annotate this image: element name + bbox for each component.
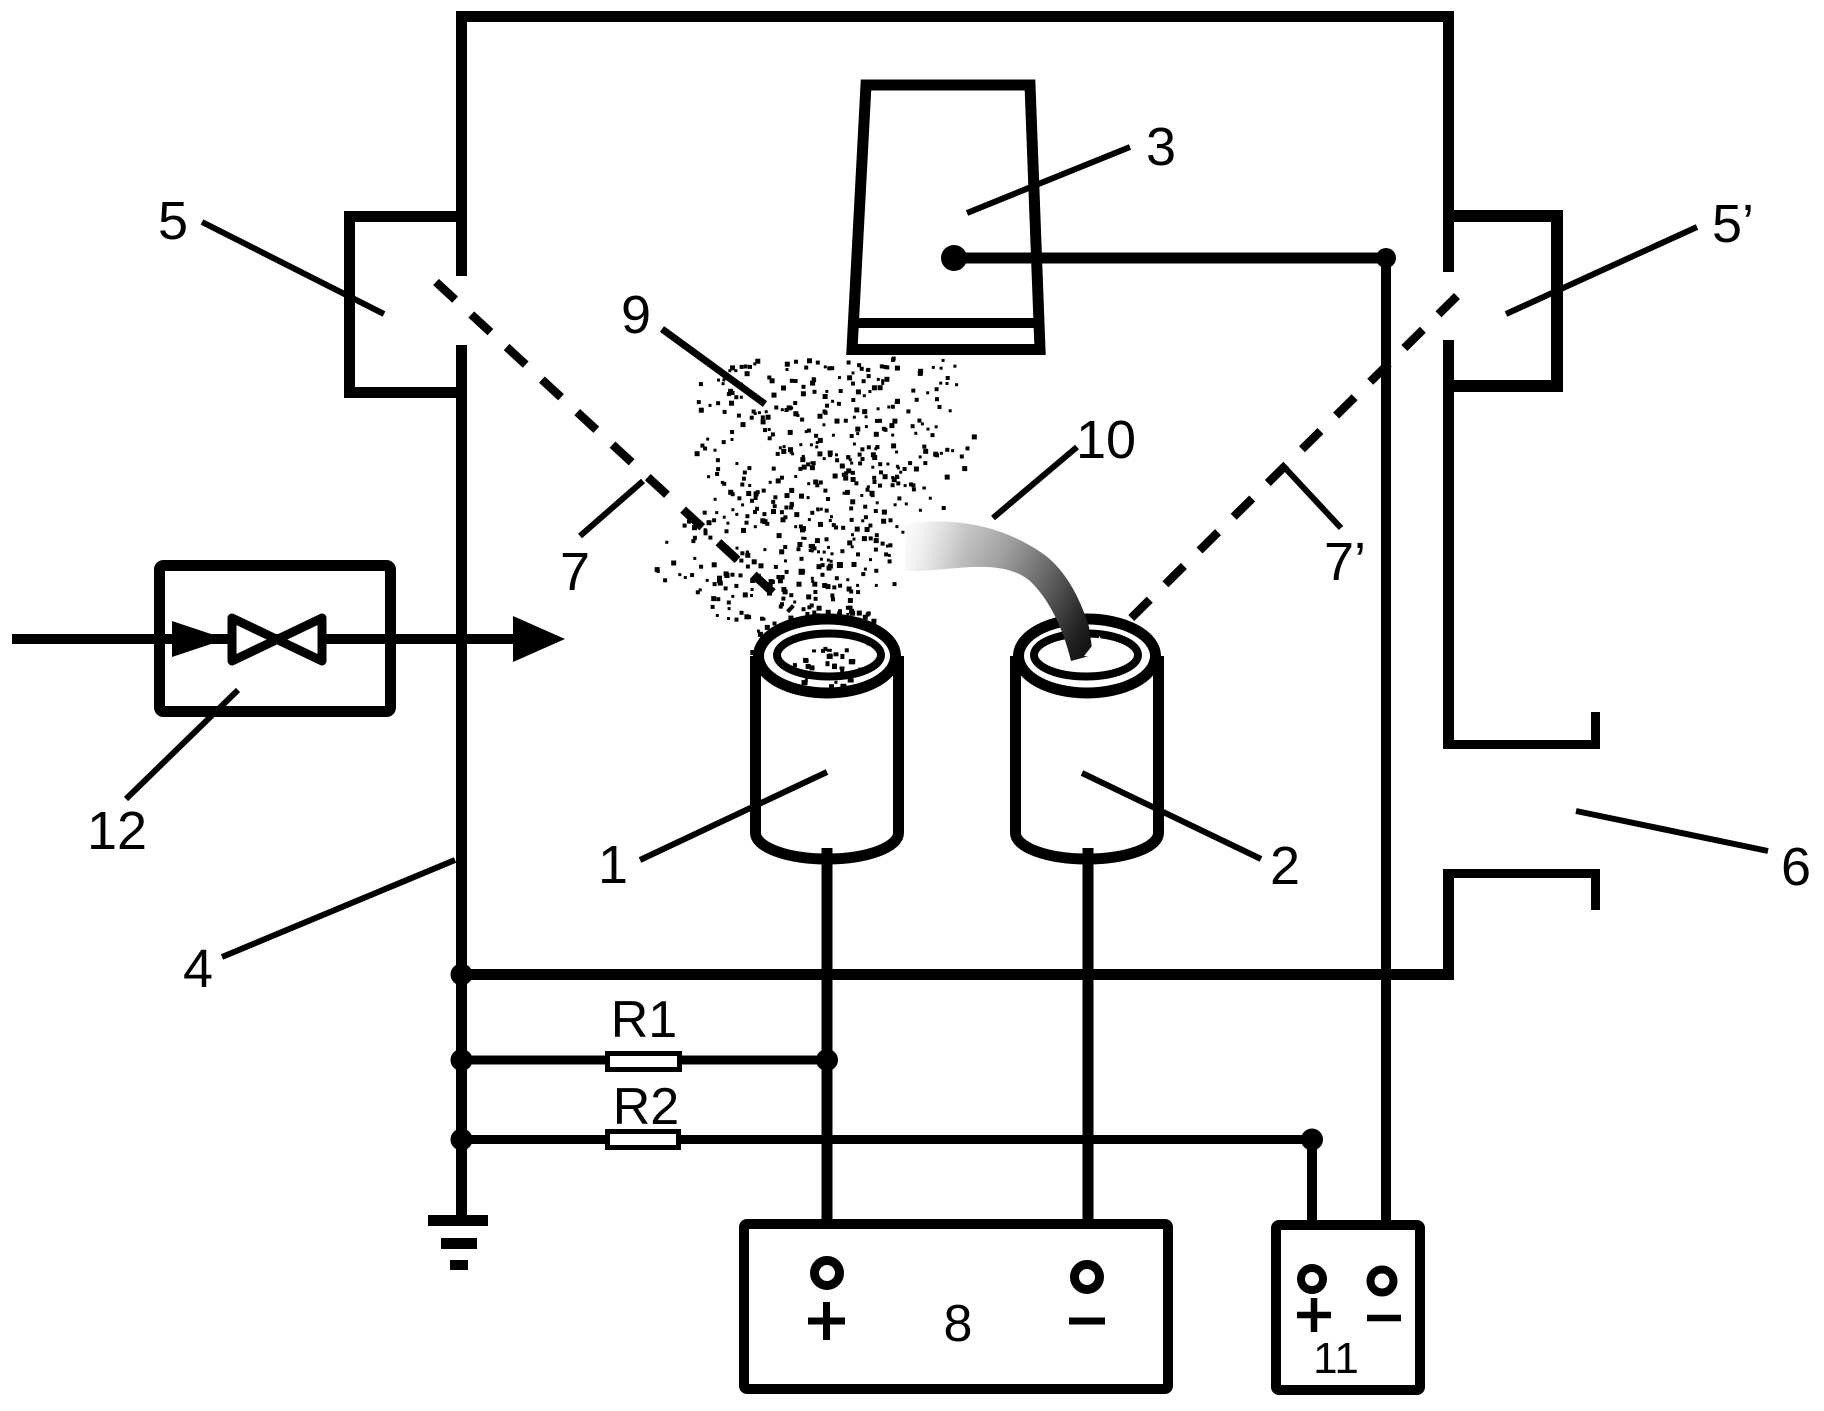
leader line label 6 [1576, 811, 1768, 851]
svg-text:8: 8 [944, 1295, 973, 1353]
corner dot top right [1376, 248, 1396, 268]
leader line label 9 [662, 329, 765, 404]
gas inlet valve box 12 [160, 566, 391, 712]
svg-text:12: 12 [87, 801, 147, 861]
leader line label 3 [967, 147, 1130, 213]
svg-text:4: 4 [183, 939, 213, 999]
supply 8 plus terminal [815, 1261, 840, 1286]
wire R1 line [461, 1056, 827, 1065]
svg-text:7: 7 [560, 542, 590, 602]
opening 6 lower lip tick [1591, 869, 1600, 910]
crucible 1 right side [893, 656, 904, 833]
window box 5 top edge [344, 211, 466, 222]
dashed sight line 7 [436, 282, 792, 610]
chamber 4 right wall upper segment [1443, 11, 1454, 272]
svg-text:3: 3 [1146, 117, 1176, 177]
supply 8 minus sign [1069, 1318, 1105, 1325]
crucible 2 wire down [1083, 848, 1094, 1261]
leader line label 2 [1082, 773, 1261, 859]
supply 11 minus terminal [1371, 1270, 1394, 1293]
junction dot chamber bottom left [451, 964, 473, 986]
chamber 4 right wall middle segment [1443, 340, 1454, 749]
supply 11 minus sign [1367, 1315, 1401, 1322]
junction dot R1 left [451, 1049, 473, 1071]
svg-text:6: 6 [1781, 837, 1811, 897]
svg-text:11: 11 [1313, 1334, 1359, 1383]
crucible 2 left side [1010, 656, 1021, 833]
gas inlet arrowhead inner [172, 621, 226, 657]
crucible 2 top outer rim [1019, 619, 1156, 693]
window box 5 bottom edge [344, 387, 466, 398]
svg-text:R1: R1 [611, 991, 677, 1049]
opening 6 upper lip tick [1591, 712, 1600, 749]
leader line label 1 [640, 772, 827, 860]
valve bowtie left triangle [232, 618, 277, 661]
gas inlet arrowhead into chamber [513, 616, 565, 662]
opening 6 upper lip [1444, 740, 1600, 749]
crucible 1 inner rim [777, 634, 881, 677]
crucible 2 bottom arc [1016, 833, 1159, 859]
svg-text:9: 9 [621, 285, 651, 345]
crucible 2 inner rim [1034, 634, 1138, 677]
svg-text:1: 1 [598, 835, 628, 895]
chamber 4 bottom wall [456, 969, 1454, 980]
svg-text:2: 2 [1270, 836, 1300, 896]
valve bowtie right triangle [277, 618, 322, 661]
chamber 4 top wall [456, 11, 1454, 22]
leader line label 5' [1506, 227, 1697, 314]
leader line label 5 [202, 222, 384, 314]
leader line label 12 [126, 690, 238, 799]
wire R2 line [461, 1135, 1312, 1144]
leader line label 7' [1287, 470, 1341, 528]
chamber 4 right wall lower segment [1443, 869, 1454, 980]
plume left soft fade [905, 522, 1093, 661]
window box 5 left edge [344, 211, 355, 398]
crucible 1 top outer rim [759, 619, 896, 693]
spray dots inside crucible 1 mouth [793, 642, 1125, 698]
crucible 1 left side [750, 656, 761, 833]
wire from target 3 to right [954, 253, 1386, 264]
chamber 4 left wall lower segment [456, 345, 467, 980]
svg-text:7’: 7’ [1324, 532, 1366, 592]
crucible 1 bottom arc [756, 833, 899, 859]
junction dot R2 right [1301, 1129, 1323, 1151]
supply 8 minus terminal [1075, 1265, 1100, 1290]
leader line label 10 [993, 447, 1077, 518]
crucible 2 right side [1153, 656, 1164, 833]
leader line label 4 [222, 860, 455, 957]
window box 5' bottom edge [1444, 380, 1563, 392]
resistor R2 [608, 1132, 679, 1148]
supply 11 plus sign [1297, 1298, 1331, 1332]
wire down right side to supply 11 minus [1381, 258, 1391, 1266]
svg-text:10: 10 [1076, 410, 1136, 470]
svg-text:5: 5 [158, 191, 188, 251]
wire from R2 junction down to supply 11 plus [1307, 1140, 1317, 1267]
gas inlet line [12, 634, 545, 644]
sputter target 3 material plate line [854, 318, 1038, 328]
junction dot R2 left [451, 1129, 473, 1151]
chamber 4 left wall upper segment [456, 11, 467, 276]
opening 6 lower lip [1444, 869, 1600, 878]
ground symbol bar 1 [428, 1215, 488, 1226]
plume tip notch [1084, 636, 1105, 658]
junction dot R1 right [816, 1049, 838, 1071]
power supply 8 box [744, 1224, 1168, 1389]
ground symbol bar 3 [450, 1260, 468, 1270]
window box 5' top edge [1444, 210, 1563, 222]
supply 11 plus terminal [1301, 1268, 1323, 1290]
svg-text:5’: 5’ [1712, 194, 1754, 254]
resistor R1 [608, 1054, 680, 1070]
ground symbol bar 2 [441, 1238, 477, 1249]
crucible 1 wire down [822, 848, 833, 1257]
leader line label 7 [580, 481, 643, 536]
supply 8 plus sign [808, 1302, 845, 1340]
terminal dot on target 3 [941, 245, 967, 271]
sputtered particle spray 9 [655, 357, 977, 670]
ground wire below chamber [456, 980, 467, 1215]
window box 5' right edge [1551, 210, 1563, 392]
sputter target 3 body [852, 85, 1040, 350]
svg-text:R2: R2 [613, 1078, 679, 1136]
power supply 11 box [1276, 1225, 1420, 1390]
dashed sight line 7' [1110, 296, 1457, 639]
